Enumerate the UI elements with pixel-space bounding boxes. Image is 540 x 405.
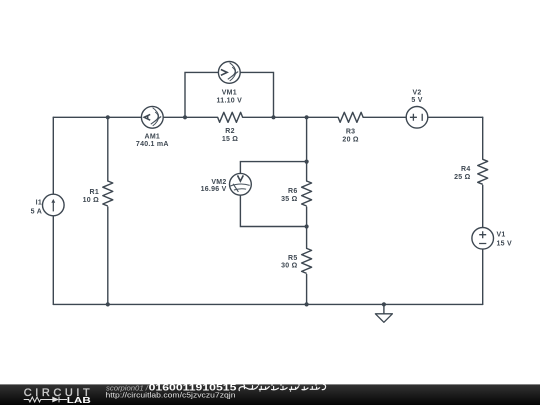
wire VM2 top branch [240,162,306,174]
voltage source V1 [472,228,494,250]
junction node R1 bottom [106,302,110,306]
resistor R2 [218,112,243,122]
voltage source V2 [406,107,428,129]
wire R1 branch lower [107,207,109,304]
svg-text:R2: R2 [225,128,234,135]
svg-text:11.10 V: 11.10 V [217,98,243,105]
svg-text:V2: V2 [412,90,421,97]
wire VM2 bottom branch [240,195,306,226]
junction node VM2 bottom [305,224,309,228]
svg-text:740.1 mA: 740.1 mA [136,141,169,148]
junction node ground [382,302,386,306]
voltmeter VM1 [218,62,240,84]
svg-text:15 Ω: 15 Ω [222,136,238,143]
current source I1 [43,194,65,216]
junction node middle top [305,115,309,119]
junction node VM2 top [305,160,309,164]
wire middle branch between R6 R5 [306,207,308,248]
svg-text:25 Ω: 25 Ω [454,174,470,181]
wire top rail AM1 to R2 [163,116,217,118]
svg-text:LAB: LAB [67,395,91,405]
svg-text:10 Ω: 10 Ω [83,197,99,204]
svg-text:R1: R1 [90,189,99,196]
resistor R4 [478,159,488,184]
svg-text:R6: R6 [288,188,297,195]
logo diode [52,397,59,403]
wire top rail V2 to right corner [428,116,483,118]
wire top rail left segment [53,116,141,118]
svg-text:R5: R5 [288,255,297,262]
resistor R1 [103,181,113,206]
wire right rail middle [482,185,484,227]
wire R1 branch upper [107,117,109,181]
voltmeter VM2 [230,173,252,195]
svg-text:35 Ω: 35 Ω [281,196,297,203]
ammeter AM1 [141,106,163,128]
svg-text:R3: R3 [346,129,355,136]
junction node VM1 left [183,115,187,119]
svg-text:5 A: 5 A [31,208,42,215]
svg-text:V1: V1 [497,232,506,239]
svg-text:30 Ω: 30 Ω [281,263,297,270]
resistor R5 [302,248,312,273]
ground [375,314,392,323]
wire bottom rail [53,303,482,305]
logo resistor squiggle [24,397,54,402]
junction node VM1 right [271,115,275,119]
wire left rail lower [52,216,54,305]
wire VM1 branch [185,72,274,117]
footer arabic name [239,384,326,390]
svg-text:16.96 V: 16.96 V [201,186,227,193]
junction node middle bottom [305,302,309,306]
wire middle branch bottom [306,274,308,304]
svg-text:R4: R4 [461,166,470,173]
svg-text:5 V: 5 V [411,97,422,104]
wire right rail lower [482,249,484,304]
svg-text:15 V: 15 V [497,241,512,248]
svg-text:I1: I1 [36,199,42,206]
svg-text:20 Ω: 20 Ω [342,137,358,144]
svg-text:AM1: AM1 [145,133,161,140]
svg-text:VM1: VM1 [222,90,237,97]
wire right rail upper [482,117,484,159]
resistor R3 [338,112,363,122]
wire top rail R2 to V2 [243,116,339,118]
resistor R6 [302,181,312,206]
svg-text:VM2: VM2 [211,179,226,186]
svg-text:http://circuitlab.com/c5jzvczu: http://circuitlab.com/c5jzvczu7zqjn [106,390,236,399]
wire middle branch top [306,117,308,181]
wire ground stub [383,304,385,313]
junction node R1 top [106,115,110,119]
wire top rail R3 to V2 [363,116,406,118]
wire left rail upper [52,117,54,194]
